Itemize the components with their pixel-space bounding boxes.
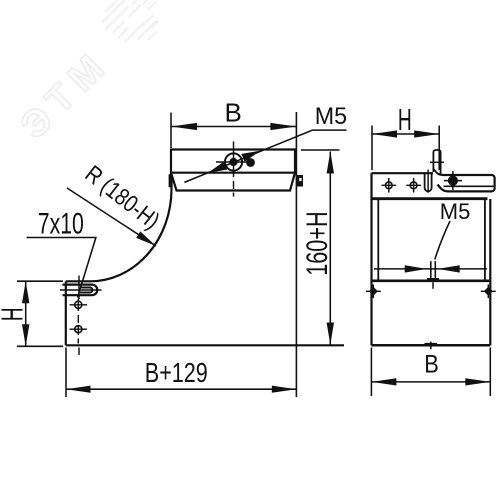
lower box bottom [371, 344, 490, 347]
M5 screw [431, 261, 436, 278]
strip thick bottom [372, 197, 488, 200]
svg-text:B: B [225, 98, 242, 128]
left clip tab [169, 174, 303, 187]
plate hole 2 [70, 326, 88, 333]
R(180-H) leader [67, 188, 156, 246]
flange rivet hole (filled) [444, 171, 462, 190]
slot 7x10 [63, 285, 98, 296]
hook tab [430, 150, 444, 174]
svg-text:H: H [398, 104, 412, 138]
M5 leader line [184, 130, 346, 182]
weld point right [481, 285, 496, 299]
svg-text:7x10: 7x10 [38, 208, 84, 240]
left plate left edge [65, 281, 67, 345]
M5 dimension (right view) [374, 268, 487, 270]
tab notches [299, 178, 301, 181]
svg-text:B+129: B+129 [145, 359, 208, 389]
dimension H (right view) [372, 126, 439, 171]
black dot fastener [246, 158, 255, 167]
top box trapezoid lip [171, 173, 295, 191]
watermark ETM logo [13, 0, 159, 147]
wall strip (top bar) [372, 173, 488, 345]
side flange sub-strip [437, 173, 494, 191]
left plate top edge [66, 280, 90, 282]
svg-text:M5: M5 [440, 199, 471, 224]
dimension 160+H [301, 150, 340, 345]
mid section walls [378, 199, 490, 345]
dimension H (left view) [17, 281, 63, 346]
strip holes [382, 178, 422, 193]
svg-text:160+H: 160+H [302, 211, 334, 275]
svg-text:H: H [0, 307, 29, 321]
top box outline [171, 150, 295, 173]
bend arc R(180-H) [90, 173, 172, 282]
strip left edge [370, 173, 372, 345]
box separation thick line [371, 279, 490, 282]
dimension B (right view) [371, 348, 490, 397]
svg-text:R (180-H): R (180-H) [80, 160, 165, 235]
svg-text:M5: M5 [315, 104, 347, 130]
body right edge / extension line [295, 112, 297, 397]
dimension B+129 [66, 348, 296, 398]
plate hole 1 [70, 301, 88, 308]
dimension B (left view) [171, 113, 296, 149]
weld point left [366, 285, 381, 299]
M5 leader arrow upper [241, 151, 260, 162]
hole crosshair [216, 161, 251, 163]
U slot in strip [425, 170, 432, 193]
plate holes centerline [77, 299, 80, 356]
M5 leader arrow lower [208, 162, 227, 173]
body bottom line [66, 344, 344, 346]
svg-text:B: B [424, 351, 439, 379]
strip top edge [372, 172, 434, 174]
bottom center tick [425, 342, 438, 350]
svg-text:ЭТМ: ЭТМ [13, 42, 119, 148]
M5 hole circle [216, 142, 251, 197]
